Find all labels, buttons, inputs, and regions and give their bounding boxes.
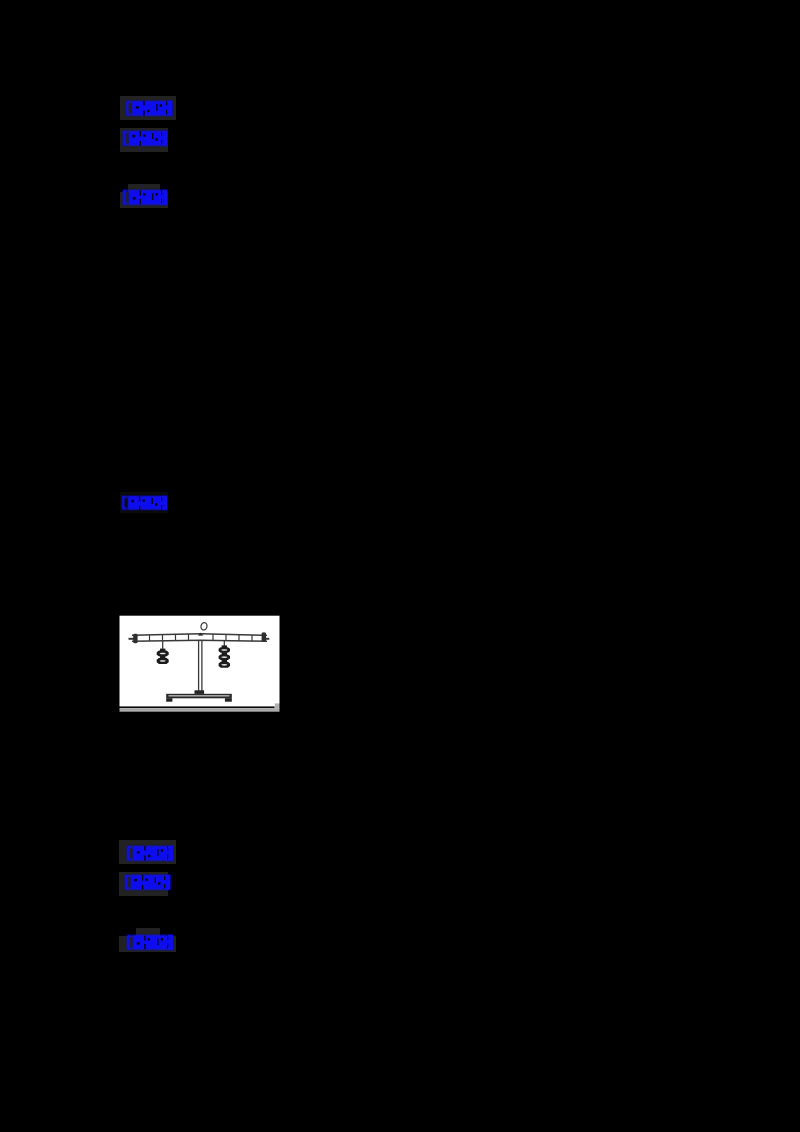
figure bottom black rule — [120, 706, 275, 708]
highlight box label6 — [119, 872, 168, 896]
highlight box label7 small — [136, 928, 160, 936]
highlight box label3 — [120, 192, 168, 208]
base bar — [166, 694, 232, 699]
left weight 2 — [157, 656, 169, 664]
right adjusting nut — [262, 632, 266, 641]
highlight box label2 — [120, 128, 168, 152]
label jieda1 — [122, 189, 168, 206]
stand column — [199, 641, 202, 692]
label jieda2 — [126, 934, 174, 951]
pivot wedge — [198, 633, 203, 636]
base bar highlight stripe — [169, 695, 230, 696]
label kaodian2 — [126, 845, 174, 862]
right weight 3 — [219, 660, 230, 668]
base right foot — [225, 698, 232, 701]
right weight 1 — [219, 645, 230, 652]
highlight box label7 — [119, 936, 176, 952]
label fenxi1 — [122, 130, 168, 147]
right end stub — [264, 638, 269, 640]
beam bottom line — [132, 640, 267, 641]
diagram: lever balance figure — [119, 615, 280, 712]
left weight 1 — [157, 649, 169, 657]
label dianping1 — [121, 495, 168, 511]
label O drawn as italic ellipse — [200, 622, 208, 631]
highlight box label1 — [120, 96, 176, 120]
left adjusting nut — [133, 634, 137, 643]
stand collar — [195, 690, 205, 694]
label fenxi2 — [124, 874, 171, 891]
figure right gray notch — [275, 703, 280, 708]
figure white background — [120, 616, 280, 712]
left end stub — [129, 638, 135, 640]
beam tick marks — [150, 634, 253, 641]
beam top line — [132, 634, 267, 636]
highlight box label3 small — [128, 184, 160, 192]
label kaodian1 — [125, 100, 173, 117]
figure bottom gray shadow bar — [120, 708, 280, 711]
right weight 2 — [219, 653, 230, 660]
left hanger wire — [162, 641, 164, 649]
base left foot — [166, 698, 172, 701]
right hanger wire — [223, 640, 225, 646]
highlight box label5 — [119, 840, 176, 864]
highlight box label4 faint — [120, 492, 168, 513]
